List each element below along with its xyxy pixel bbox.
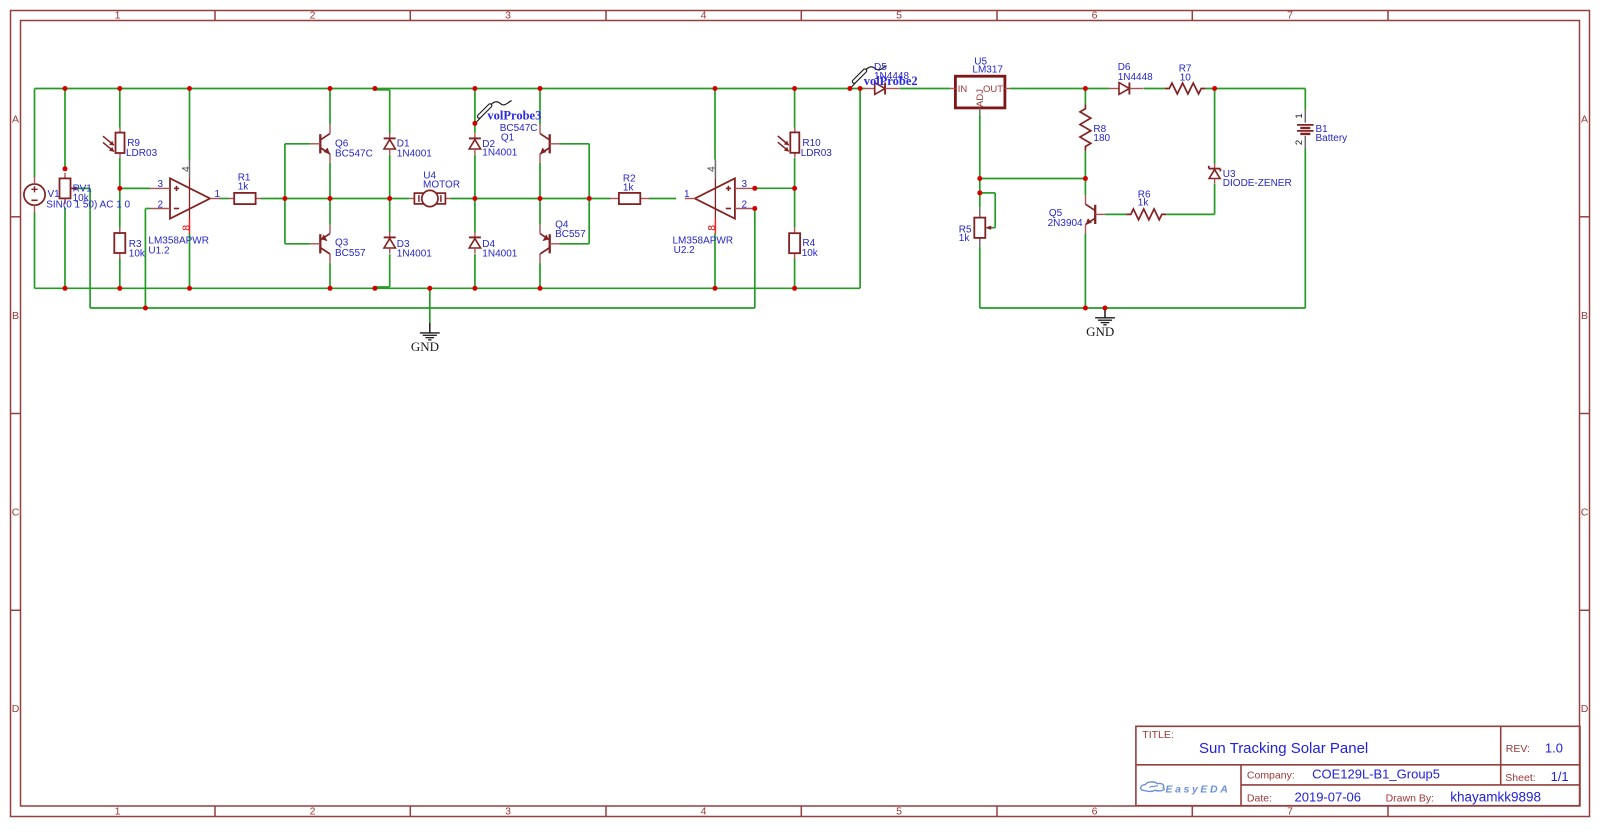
svg-text:3: 3 — [505, 806, 511, 818]
svg-text:6: 6 — [1092, 10, 1098, 22]
svg-text:1N4001: 1N4001 — [482, 148, 517, 159]
svg-text:U1.2: U1.2 — [148, 245, 170, 256]
svg-text:A: A — [1581, 113, 1588, 125]
svg-text:Date:: Date: — [1247, 793, 1272, 805]
svg-text:5: 5 — [896, 806, 902, 818]
svg-text:1N4001: 1N4001 — [397, 148, 432, 159]
svg-text:10k: 10k — [73, 193, 90, 204]
svg-text:Sun Tracking Solar Panel: Sun Tracking Solar Panel — [1199, 740, 1368, 757]
svg-text:B: B — [12, 310, 19, 322]
svg-text:B: B — [1581, 310, 1588, 322]
svg-text:LDR03: LDR03 — [126, 148, 158, 159]
svg-text:BC557: BC557 — [335, 248, 366, 259]
svg-text:1N4001: 1N4001 — [482, 248, 517, 259]
svg-text:C: C — [1581, 506, 1589, 518]
svg-text:1: 1 — [115, 806, 121, 818]
svg-text:Sheet:: Sheet: — [1505, 772, 1535, 784]
svg-text:3: 3 — [742, 179, 748, 190]
svg-text:2019-07-06: 2019-07-06 — [1295, 789, 1362, 804]
svg-text:Battery: Battery — [1316, 133, 1348, 144]
svg-text:6: 6 — [1092, 806, 1098, 818]
svg-text:GND: GND — [411, 339, 439, 354]
svg-text:1k: 1k — [623, 182, 635, 193]
svg-text:1k: 1k — [238, 181, 250, 192]
svg-text:LM317: LM317 — [972, 65, 1003, 76]
svg-text:1N4001: 1N4001 — [397, 248, 432, 259]
svg-text:4: 4 — [707, 166, 718, 172]
svg-text:3: 3 — [157, 179, 163, 190]
svg-text:REV:: REV: — [1506, 743, 1530, 755]
svg-text:10k: 10k — [802, 248, 819, 259]
svg-text:1: 1 — [115, 10, 121, 22]
svg-text:C: C — [12, 506, 20, 518]
svg-text:A: A — [12, 113, 19, 125]
svg-text:8: 8 — [706, 225, 718, 231]
svg-text:IN: IN — [958, 84, 968, 95]
svg-text:1N4448: 1N4448 — [1118, 72, 1153, 83]
svg-text:D: D — [1581, 703, 1589, 715]
svg-text:7: 7 — [1287, 10, 1293, 22]
svg-text:1: 1 — [1294, 113, 1305, 118]
svg-text:BC547C: BC547C — [335, 148, 373, 159]
svg-text:8: 8 — [180, 225, 192, 231]
svg-text:EasyEDA: EasyEDA — [1166, 783, 1231, 795]
svg-text:4: 4 — [701, 10, 707, 22]
svg-text:2: 2 — [310, 10, 316, 22]
svg-text:GND: GND — [1086, 324, 1114, 339]
svg-text:2N3904: 2N3904 — [1048, 218, 1083, 229]
svg-text:khayamkk9898: khayamkk9898 — [1450, 790, 1541, 805]
svg-text:4: 4 — [181, 166, 192, 172]
svg-text:DIODE-ZENER: DIODE-ZENER — [1223, 178, 1292, 189]
svg-text:1/1: 1/1 — [1551, 769, 1569, 784]
svg-text:10k: 10k — [129, 248, 146, 259]
svg-text:1: 1 — [215, 189, 221, 200]
svg-text:U2.2: U2.2 — [674, 245, 696, 256]
svg-text:Q3: Q3 — [335, 237, 349, 248]
svg-text:R10: R10 — [802, 138, 821, 149]
svg-text:2: 2 — [1294, 140, 1305, 145]
svg-text:volProbe3: volProbe3 — [487, 108, 541, 122]
svg-text:1.0: 1.0 — [1545, 741, 1563, 756]
svg-text:10: 10 — [1180, 73, 1192, 84]
svg-text:180: 180 — [1093, 133, 1110, 144]
svg-text:7: 7 — [1287, 806, 1293, 818]
svg-text:BC557: BC557 — [555, 229, 586, 240]
svg-text:1: 1 — [684, 189, 690, 200]
svg-text:1k: 1k — [959, 233, 971, 244]
svg-text:MOTOR: MOTOR — [423, 180, 460, 191]
svg-text:2: 2 — [157, 199, 163, 210]
svg-text:ADJ: ADJ — [975, 89, 986, 107]
svg-text:COE129L-B1_Group5: COE129L-B1_Group5 — [1312, 766, 1440, 781]
svg-text:5: 5 — [896, 10, 902, 22]
svg-text:Q1: Q1 — [501, 132, 515, 143]
svg-text:Drawn By:: Drawn By: — [1386, 793, 1434, 805]
svg-text:D: D — [12, 703, 20, 715]
svg-text:volProbe2: volProbe2 — [864, 74, 918, 88]
svg-text:1k: 1k — [1138, 198, 1150, 209]
svg-text:V1: V1 — [48, 189, 61, 200]
svg-text:LDR03: LDR03 — [801, 148, 833, 159]
svg-text:2: 2 — [310, 806, 316, 818]
svg-text:4: 4 — [701, 806, 707, 818]
svg-text:TITLE:: TITLE: — [1142, 729, 1174, 741]
svg-text:2: 2 — [742, 199, 748, 210]
svg-text:Company:: Company: — [1247, 770, 1295, 782]
svg-text:3: 3 — [505, 10, 511, 22]
